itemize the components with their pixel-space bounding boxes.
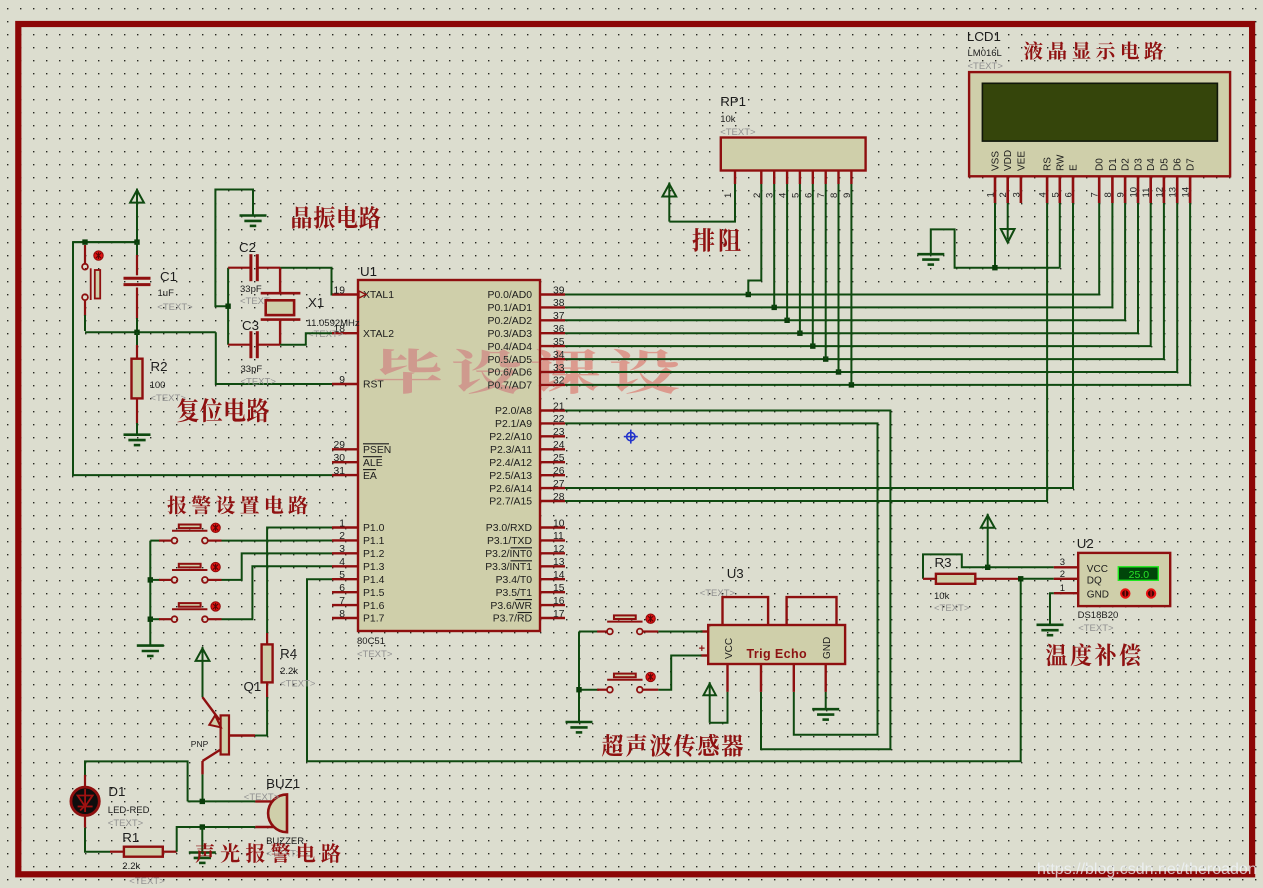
- U1 pin 4 P1.3: [332, 565, 358, 567]
- wire RP1 pin9 down: [850, 184, 852, 385]
- svg-text:1: 1: [339, 518, 345, 529]
- svg-text:<TEXT>: <TEXT>: [308, 329, 344, 340]
- wire P0.0 bus: [565, 203, 1099, 295]
- svg-text:P3.4/T0: P3.4/T0: [496, 575, 533, 586]
- svg-text:VCC: VCC: [1087, 564, 1108, 575]
- junction button2: [148, 577, 153, 582]
- U2 indicator 1: [1121, 589, 1129, 597]
- U3 bottom pins: [726, 664, 728, 692]
- wire reset node: [85, 331, 216, 333]
- crystal X1: [279, 268, 281, 292]
- svg-text:P2.0/A8: P2.0/A8: [495, 406, 532, 417]
- U1 pin 19 XTAL1: [332, 293, 358, 295]
- U1 pin 31 EA: [332, 474, 358, 476]
- resistor R2: [136, 332, 138, 346]
- svg-text:R4: R4: [280, 646, 297, 661]
- U1 pin 33 P0.6/AD6: [540, 371, 565, 373]
- svg-text:P3.1/TXD: P3.1/TXD: [487, 536, 532, 547]
- svg-text:X1: X1: [308, 295, 324, 310]
- LCD pin 13 D6: [1176, 176, 1179, 203]
- svg-text:RW: RW: [1055, 154, 1066, 171]
- svg-text:10k: 10k: [720, 114, 736, 125]
- U1 pin 5 P1.4: [332, 578, 358, 580]
- LED D1: [71, 787, 99, 815]
- U3 test button A: [579, 631, 599, 633]
- wire R1 to buzzer net: [177, 827, 256, 852]
- svg-text:1: 1: [986, 192, 997, 197]
- wire P2.0 to U3 Trig: [565, 411, 890, 750]
- svg-text:<TEXT>: <TEXT>: [934, 603, 970, 614]
- svg-text:1: 1: [723, 193, 734, 198]
- wire VSS down: [994, 203, 996, 268]
- wire RP1 pin5 down: [799, 184, 801, 333]
- U1 pin 27 P2.6/A14: [540, 487, 565, 489]
- junction VCC-C1: [134, 239, 139, 244]
- svg-text:6: 6: [1064, 192, 1075, 197]
- svg-text:U1: U1: [360, 264, 377, 279]
- U1 pin 12 P3.2/INT0: [540, 552, 565, 554]
- wire RST: [216, 332, 332, 384]
- RP1 pin 3: [773, 171, 775, 185]
- wire P2.6 to LCD E: [565, 203, 1073, 488]
- svg-text:U2: U2: [1077, 536, 1094, 551]
- svg-text:3: 3: [1011, 192, 1022, 197]
- U1 pin 16 P3.6/WR: [540, 604, 565, 606]
- power arrow (U2): [981, 515, 995, 528]
- junction VCC R3: [985, 565, 990, 570]
- U1 pin 22 P2.1/A9: [540, 422, 565, 424]
- svg-text:12: 12: [553, 544, 565, 555]
- svg-text:10: 10: [553, 518, 565, 529]
- svg-text:LCD1: LCD1: [967, 29, 1001, 44]
- wire P0.2 bus: [565, 203, 1125, 320]
- svg-text:25: 25: [553, 453, 565, 464]
- svg-text:27: 27: [553, 479, 565, 490]
- ground (reset): [124, 435, 151, 445]
- U1 pin 35 P0.4/AD4: [540, 345, 565, 347]
- wire RP1 pin8 down: [838, 184, 840, 372]
- RP1 body: [721, 138, 866, 171]
- svg-text:GND: GND: [1087, 590, 1109, 601]
- wire U2 GND: [1050, 593, 1054, 625]
- svg-text:P2.3/A11: P2.3/A11: [490, 445, 532, 456]
- svg-text:C3: C3: [242, 318, 259, 333]
- junction RP1 pin7 on P0.5 bus: [823, 356, 828, 361]
- junction C1/R2: [134, 330, 139, 335]
- capacitor C2: [228, 267, 250, 269]
- wire P2.7 to LCD RS: [565, 203, 1047, 501]
- svg-text:RS: RS: [1043, 157, 1054, 171]
- svg-text:9: 9: [339, 375, 345, 386]
- svg-text:16: 16: [553, 596, 565, 607]
- svg-text:VEE: VEE: [1016, 151, 1027, 171]
- wire RP1 pin6 down: [812, 184, 814, 346]
- svg-text:17: 17: [553, 609, 565, 620]
- U1 pin 13 P3.3/INT1: [540, 565, 565, 567]
- label sound-light alarm circuit: [196, 843, 341, 863]
- svg-text:P1.1: P1.1: [363, 536, 385, 547]
- wire RP1 pin4 down: [786, 184, 788, 320]
- svg-text:LED-RED: LED-RED: [108, 805, 150, 816]
- wire R3 bracket: [923, 554, 1054, 578]
- ground (buttons): [137, 646, 164, 656]
- svg-text:31: 31: [334, 466, 346, 477]
- wire P0.1 bus: [565, 203, 1112, 307]
- junction RP1 pin5 on P0.3 bus: [797, 331, 802, 336]
- cursor crosshair: [624, 430, 638, 444]
- svg-text:<TEXT>: <TEXT>: [720, 127, 756, 138]
- wire C2/C3 left common: [227, 268, 229, 345]
- svg-text:P2.1/A9: P2.1/A9: [495, 419, 532, 430]
- wire VDD to power-down arrow: [1001, 229, 1015, 243]
- U1 pin 23 P2.2/A10: [540, 435, 565, 437]
- svg-text:<TEXT>: <TEXT>: [157, 302, 193, 313]
- svg-text:P1.6: P1.6: [363, 601, 385, 612]
- U3 left pin minus: [701, 630, 709, 632]
- wire button3 to P1.3: [222, 566, 333, 619]
- svg-text:<TEXT>: <TEXT>: [1078, 623, 1114, 634]
- svg-text:VCC: VCC: [724, 638, 735, 659]
- svg-text:11: 11: [553, 531, 564, 542]
- LCD pin 14 D7: [1189, 176, 1192, 203]
- svg-text:6: 6: [339, 583, 345, 594]
- svg-text:10k: 10k: [934, 591, 950, 602]
- U1 pin 9 RST: [332, 383, 358, 385]
- junction buzzer bottom/ground: [200, 824, 205, 829]
- label resistor pack: [692, 228, 740, 252]
- U2 pin 2: [1054, 578, 1078, 580]
- U1 pin 24 P2.3/A11: [540, 448, 565, 450]
- svg-text:LM016L: LM016L: [968, 48, 1002, 59]
- svg-text:D2: D2: [1121, 158, 1132, 171]
- svg-text:14: 14: [553, 570, 565, 581]
- wire P0.7 bus: [565, 203, 1190, 385]
- wire LCD gnd net: [931, 229, 1060, 267]
- junction crystal gnd: [225, 304, 230, 309]
- button key2: [150, 579, 160, 581]
- junction RP1 pin9 on P0.7 bus: [849, 382, 854, 387]
- svg-text:R3: R3: [935, 555, 952, 570]
- button key1: [150, 540, 160, 542]
- ground (buzzer): [189, 853, 216, 863]
- RP1 pin 6: [812, 171, 814, 185]
- LCD pin 5 RW: [1059, 176, 1062, 203]
- U1 pin 17 P3.7/RD: [540, 617, 565, 619]
- svg-text:https://blog.csdn.net/theroado: https://blog.csdn.net/theroadon: [1037, 861, 1257, 878]
- wire C3 to XTAL2: [280, 333, 332, 345]
- junction collector/buzzer: [200, 799, 205, 804]
- svg-text:P0.2/AD2: P0.2/AD2: [488, 316, 533, 327]
- power arrow VCC (reset): [130, 190, 144, 203]
- svg-text:P1.0: P1.0: [363, 523, 385, 534]
- svg-text:35: 35: [553, 337, 565, 348]
- wire P0.6 bus: [565, 203, 1177, 372]
- svg-text:P3.2/INT0: P3.2/INT0: [485, 549, 532, 560]
- svg-text:RP1: RP1: [720, 94, 746, 109]
- svg-text:D0: D0: [1095, 158, 1106, 171]
- capacitor C3: [228, 344, 250, 346]
- label temperature compensation: [1046, 643, 1141, 666]
- wire Q1 collector down: [202, 774, 204, 801]
- junction RP1 pin3 on P0.1 bus: [772, 305, 777, 310]
- wire C2 to XTAL1: [280, 268, 332, 295]
- junction RP1 pin2 on P0.0 bus: [746, 292, 751, 297]
- wire P0.5 bus: [565, 203, 1164, 359]
- svg-text:12: 12: [1154, 187, 1165, 198]
- svg-text:P3.3/INT1: P3.3/INT1: [485, 562, 532, 573]
- U1 pin 36 P0.3/AD3: [540, 332, 565, 334]
- svg-text:80C51: 80C51: [357, 636, 385, 647]
- svg-text:<TEXT>: <TEXT>: [108, 818, 144, 829]
- LCD pin 8 D1: [1111, 176, 1114, 203]
- wire U3 GND: [825, 692, 827, 709]
- svg-text:D1: D1: [108, 784, 125, 799]
- U3 test button B: [579, 689, 599, 691]
- svg-text:D4: D4: [1146, 158, 1157, 171]
- LCD pin 11 D4: [1149, 176, 1152, 203]
- svg-text:13: 13: [1168, 187, 1179, 198]
- svg-text:10: 10: [1129, 187, 1140, 198]
- svg-text:<TEXT>: <TEXT>: [129, 876, 165, 887]
- LCD pin 12 D5: [1163, 176, 1166, 203]
- svg-text:P0.4/AD4: P0.4/AD4: [488, 342, 533, 353]
- RP1 pin 2: [760, 171, 762, 185]
- U1 pin 6 P1.5: [332, 591, 358, 593]
- svg-text:39: 39: [553, 285, 565, 296]
- U1 pin 28 P2.7/A15: [540, 500, 565, 502]
- svg-text:11.0592MHz: 11.0592MHz: [307, 318, 360, 329]
- svg-text:P0.3/AD3: P0.3/AD3: [488, 329, 533, 340]
- transistor Q1 PNP: [221, 715, 229, 754]
- svg-text:<TEXT>: <TEXT>: [968, 61, 1004, 72]
- wire P0.4 bus: [565, 203, 1151, 346]
- svg-text:28: 28: [553, 492, 565, 503]
- power arrow (RP1): [662, 184, 676, 197]
- U1 pin 14 P3.4/T0: [540, 578, 565, 580]
- RP1 pin 1 lead: [734, 171, 736, 185]
- wire RP1 pin3 down: [773, 184, 775, 307]
- wire button1 to P1.1: [222, 540, 333, 542]
- U1 80C51 body: [358, 280, 540, 631]
- LCD pin 4 RS: [1046, 176, 1049, 203]
- junction RP1 pin8 on P0.6 bus: [836, 369, 841, 374]
- svg-text:P2.7/A15: P2.7/A15: [489, 497, 532, 508]
- LCD pin 9 D2: [1124, 176, 1127, 203]
- wire crystal ground net: [215, 190, 253, 307]
- svg-text:P3.6/WR: P3.6/WR: [490, 601, 532, 612]
- svg-text:U3: U3: [727, 566, 744, 581]
- svg-text:R2: R2: [151, 359, 168, 374]
- svg-text:D7: D7: [1186, 158, 1197, 171]
- label alarm set circuit: [167, 496, 307, 515]
- svg-text:2: 2: [998, 192, 1009, 197]
- button key3: [150, 618, 160, 620]
- U1 pin 34 P0.5/AD5: [540, 358, 565, 360]
- svg-text:33pF: 33pF: [241, 364, 263, 375]
- wire RW down: [1059, 203, 1061, 268]
- svg-text:PSEN: PSEN: [363, 445, 391, 456]
- wire RP1 pin7 down: [825, 184, 827, 359]
- junction RP1 pin6 on P0.4 bus: [810, 343, 815, 348]
- wire RP1 pin1 to power: [669, 184, 735, 222]
- svg-text:8: 8: [1103, 192, 1114, 197]
- svg-text:ALE: ALE: [363, 458, 383, 469]
- svg-text:13: 13: [553, 557, 565, 568]
- wire button2 to P1.2: [222, 553, 333, 580]
- wire P2.1 to U3 Echo: [565, 423, 878, 734]
- svg-text:RST: RST: [363, 380, 384, 391]
- U1 pin 15 P3.5/T1: [540, 591, 565, 593]
- U1 pin 1 P1.0: [332, 526, 358, 528]
- svg-text:1: 1: [1060, 583, 1065, 594]
- U3 transducer tabs: [723, 597, 769, 625]
- svg-text:14: 14: [1181, 187, 1192, 198]
- U1 pin 18 XTAL2: [332, 332, 358, 334]
- svg-text:2.2k: 2.2k: [280, 666, 298, 677]
- wire DQ to U2: [1021, 578, 1054, 580]
- svg-text:P1.4: P1.4: [363, 575, 385, 586]
- svg-text:C1: C1: [160, 269, 177, 284]
- svg-text:PNP: PNP: [191, 739, 209, 749]
- U1 pin 3 P1.2: [332, 552, 358, 554]
- reset button: [82, 264, 100, 300]
- svg-text:2: 2: [339, 531, 345, 542]
- U1 pin 38 P0.1/AD1: [540, 306, 565, 308]
- LCD pin 1 VSS: [994, 176, 997, 203]
- svg-text:P3.7/RD: P3.7/RD: [493, 614, 532, 625]
- svg-text:25.0: 25.0: [1129, 569, 1150, 581]
- junction buttonB common: [576, 687, 581, 692]
- svg-text:D1: D1: [1108, 158, 1119, 171]
- wire D1 top to buzzer net: [85, 761, 188, 801]
- svg-text:1uF: 1uF: [158, 288, 175, 299]
- svg-text:26: 26: [553, 466, 565, 477]
- power arrow (U3): [704, 684, 716, 696]
- wire EA to VCC node: [73, 242, 332, 475]
- svg-text:4: 4: [1038, 192, 1049, 197]
- svg-text:C2: C2: [239, 240, 256, 255]
- svg-text:P2.2/A10: P2.2/A10: [489, 432, 532, 443]
- svg-text:21: 21: [553, 401, 565, 412]
- svg-text:D6: D6: [1173, 158, 1184, 171]
- wire VCC node to button: [73, 241, 137, 243]
- wire button leads: [84, 245, 86, 263]
- svg-text:23: 23: [553, 427, 565, 438]
- U1 pin 37 P0.2/AD2: [540, 319, 565, 321]
- U1 pin 32 P0.7/AD7: [540, 384, 565, 386]
- wire buttonB to plus: [658, 656, 701, 690]
- svg-text:2: 2: [1060, 569, 1065, 580]
- svg-text:19: 19: [334, 285, 346, 296]
- junction button3: [148, 617, 153, 622]
- U1 pin 2 P1.1: [332, 539, 358, 541]
- svg-text:22: 22: [553, 414, 565, 425]
- RP1 pin 8: [837, 171, 839, 185]
- label reset circuit: [177, 398, 269, 422]
- wire R4 to Q1 base: [254, 697, 267, 736]
- resistor R1: [110, 851, 124, 853]
- U2 pin 1: [1054, 592, 1078, 594]
- RP1 pin 9: [850, 171, 852, 185]
- junction DQ: [1018, 576, 1023, 581]
- U2 body DS18B20: [1078, 553, 1170, 606]
- RP1 pin 4: [786, 171, 788, 185]
- U2 display 25.0: [1118, 567, 1158, 581]
- svg-text:5: 5: [1050, 192, 1061, 197]
- svg-text:XTAL2: XTAL2: [363, 329, 394, 340]
- RP1 pin 7: [825, 171, 827, 185]
- svg-text:XTAL1: XTAL1: [363, 290, 394, 301]
- svg-text:3: 3: [339, 544, 345, 555]
- svg-text:3: 3: [1060, 557, 1065, 568]
- LCD pin 2 VDD: [1006, 176, 1009, 203]
- svg-text:<TEXT>: <TEXT>: [357, 649, 393, 660]
- U2 indicator 2: [1147, 589, 1155, 597]
- ground (LCD): [917, 254, 944, 264]
- svg-text:DQ: DQ: [1087, 576, 1102, 587]
- svg-text:DS18B20: DS18B20: [1078, 610, 1119, 621]
- svg-text:37: 37: [553, 311, 565, 322]
- svg-text:Q1: Q1: [244, 679, 262, 694]
- wire P1.0 to R4: [267, 528, 332, 634]
- ground (U3 buttons): [566, 722, 593, 732]
- junction VSS/gnd: [992, 265, 997, 270]
- svg-text:P1.3: P1.3: [363, 562, 385, 573]
- svg-text:11: 11: [1141, 188, 1152, 198]
- LCD1 body: [969, 72, 1230, 176]
- wire buzzer top net: [188, 800, 256, 802]
- U1 pin 21 P2.0/A8: [540, 409, 565, 411]
- power arrow (Q1 emitter): [196, 648, 210, 661]
- svg-text:<TEXT>: <TEXT>: [244, 792, 280, 803]
- svg-text:P2.5/A13: P2.5/A13: [489, 471, 532, 482]
- svg-text:100: 100: [150, 380, 166, 391]
- svg-text:9: 9: [1116, 192, 1127, 197]
- svg-text:36: 36: [553, 324, 565, 335]
- wire P1.4 to DS18B20 DQ (long route): [307, 579, 1021, 762]
- LCD pin 6 E: [1072, 176, 1075, 203]
- wire P0.3 bus: [565, 203, 1138, 333]
- capacitor C1: [136, 242, 138, 256]
- svg-text:GND: GND: [822, 637, 833, 659]
- svg-text:29: 29: [334, 440, 346, 451]
- ground (U2): [1037, 625, 1064, 635]
- U1 pin 10 P3.0/RXD: [540, 526, 565, 528]
- svg-text:P1.5: P1.5: [363, 588, 385, 599]
- svg-text:P2.6/A14: P2.6/A14: [489, 484, 532, 495]
- label ultrasonic sensor: [602, 734, 743, 757]
- svg-text:P0.1/AD1: P0.1/AD1: [488, 303, 533, 314]
- LCD1 screen: [982, 83, 1217, 141]
- svg-text:VSS: VSS: [991, 151, 1002, 171]
- LCD pin 3 VEE: [1020, 176, 1023, 203]
- ground (crystal): [240, 216, 267, 226]
- svg-text:Trig Echo: Trig Echo: [747, 647, 808, 661]
- wire U3 VCC to power: [710, 692, 728, 723]
- U1 pin 25 P2.4/A12: [540, 461, 565, 463]
- svg-text:4: 4: [339, 557, 345, 568]
- label crystal circuit: [292, 206, 380, 229]
- svg-text:38: 38: [553, 298, 565, 309]
- U2 pin 3: [1054, 566, 1078, 568]
- svg-text:7: 7: [339, 596, 345, 607]
- label LCD display circuit: [1024, 41, 1163, 59]
- svg-text:BUZ1: BUZ1: [266, 776, 300, 791]
- svg-text:33pF: 33pF: [240, 284, 262, 295]
- svg-text:P1.2: P1.2: [363, 549, 385, 560]
- svg-text:<TEXT>: <TEXT>: [241, 377, 277, 388]
- LCD pin 7 D0: [1098, 176, 1101, 203]
